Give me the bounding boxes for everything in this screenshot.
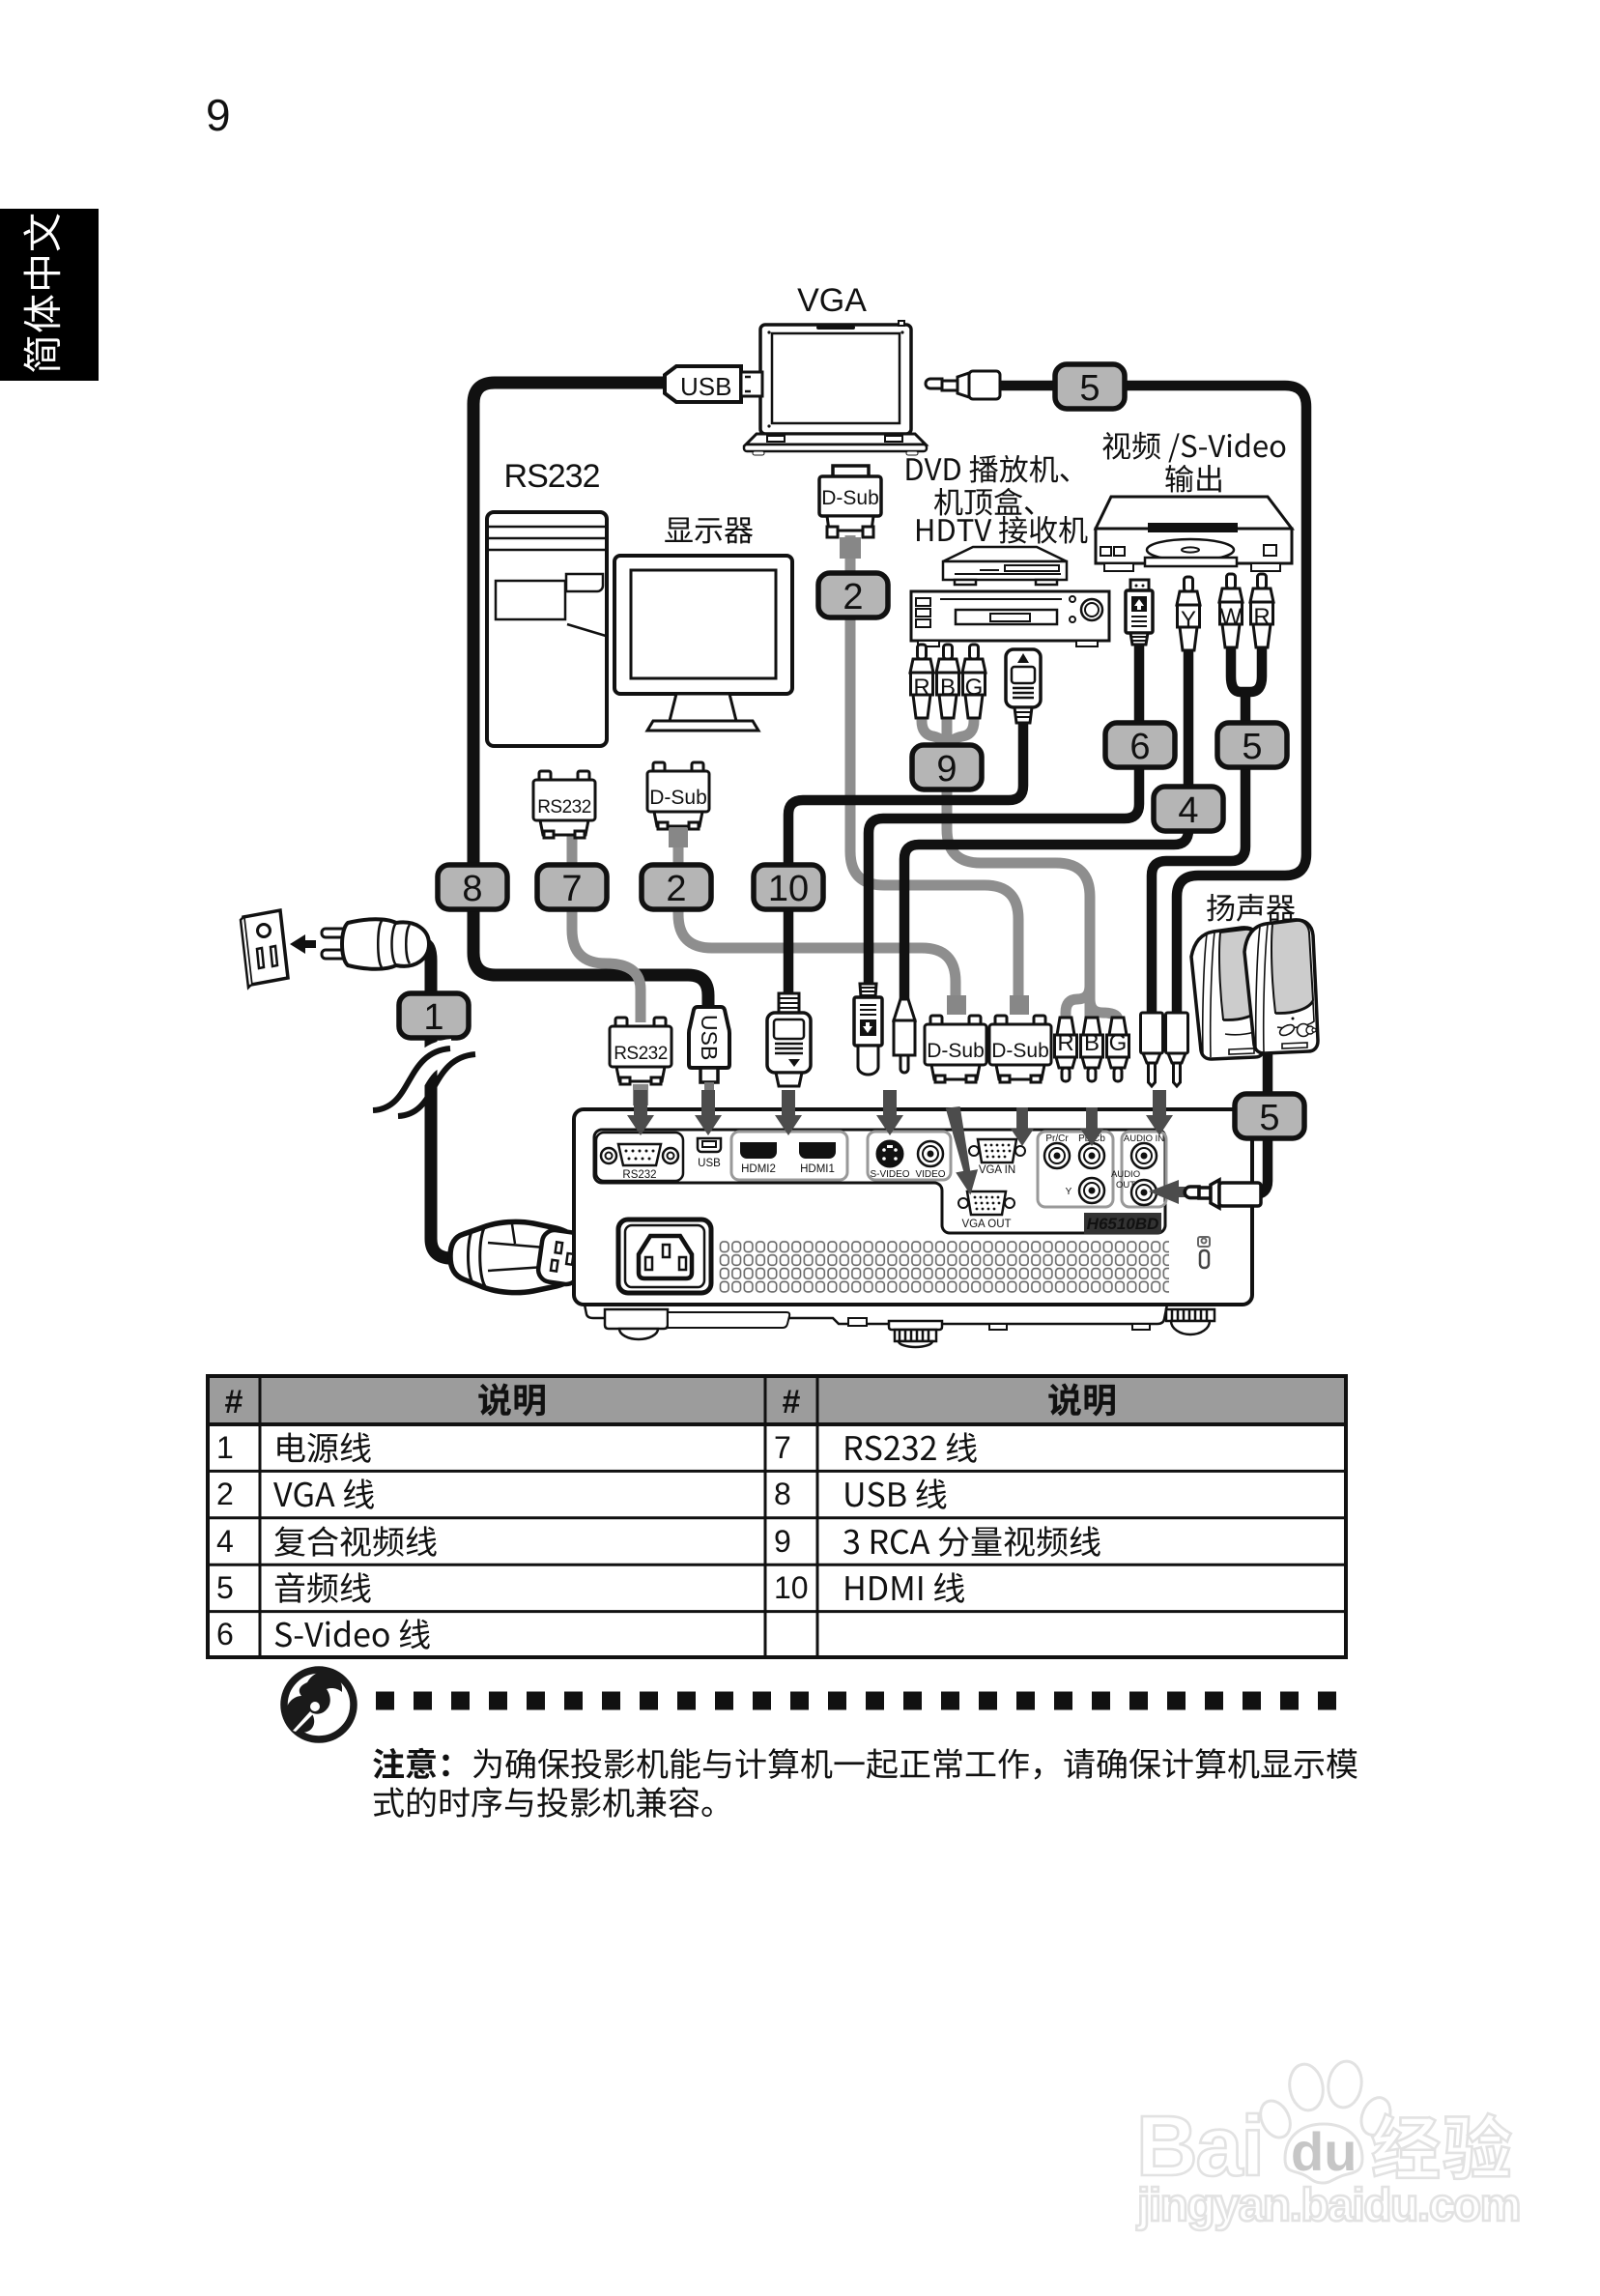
wire component-cable [922, 715, 1090, 980]
label monitor [665, 517, 753, 543]
label tab [23, 214, 60, 372]
speakers [1191, 920, 1318, 1059]
arrow into audio-out [1149, 1180, 1204, 1204]
label th2 [1048, 1384, 1115, 1417]
svg-text:Y: Y [1066, 1187, 1072, 1197]
svg-text:4: 4 [1178, 790, 1198, 831]
callout 8 usb [438, 865, 507, 909]
projector port panel [594, 1130, 1165, 1233]
iec plug [450, 1221, 585, 1292]
label th1 [478, 1384, 545, 1417]
svg-text:R: R [913, 674, 929, 701]
callout 5 speaker [1235, 1094, 1304, 1138]
svg-text:VGA: VGA [797, 282, 867, 319]
connector usb-bottom [689, 1007, 729, 1100]
svg-text:Y: Y [1181, 607, 1196, 633]
svg-text:8: 8 [774, 1477, 791, 1511]
svg-text:1: 1 [423, 997, 443, 1038]
svg-text:D-Sub: D-Sub [649, 787, 707, 809]
wire vga-cable-monitor [678, 829, 956, 1005]
callout 4 composite [1154, 787, 1223, 831]
svg-text:R: R [1057, 1030, 1073, 1056]
power plug [322, 919, 429, 969]
callout 10 hdmi [754, 865, 823, 909]
svg-text:W: W [1220, 604, 1243, 630]
svg-text:#: # [225, 1384, 243, 1421]
wire usb-cable [473, 383, 708, 1024]
label r4a [275, 1572, 371, 1603]
callout 5 laptop-audio [1055, 364, 1125, 409]
port hdmi group [731, 1132, 847, 1180]
svg-text:jingyan.baidu.com: jingyan.baidu.com [1136, 2180, 1520, 2231]
svg-text:D-Sub: D-Sub [991, 1040, 1049, 1062]
label r1b [845, 1432, 976, 1462]
label r3a [274, 1526, 437, 1556]
connector audio-plug-out [1185, 1180, 1261, 1208]
connector rs232-bottom [610, 1018, 671, 1084]
port vga-in [969, 1139, 1025, 1162]
connector usb-plug-laptop [665, 366, 762, 402]
wire audio-cable-laptop [995, 386, 1306, 1017]
arrow into vga-out port [946, 1105, 980, 1195]
svg-text:H6510BD: H6510BD [1087, 1215, 1159, 1233]
connector rs232-top [533, 771, 595, 838]
label dvd1 [906, 455, 1069, 483]
label r3b [843, 1526, 1100, 1556]
power inlet [618, 1220, 711, 1293]
svg-text:RS232: RS232 [614, 1044, 668, 1064]
connector dsub2-bottom [1010, 995, 1029, 1015]
connector rca-B-bottom [1081, 1018, 1103, 1081]
label r2b [845, 1478, 946, 1508]
connector rca-R-top [910, 645, 933, 718]
label dvd3 [917, 516, 1087, 544]
svg-text:HDMI1: HDMI1 [800, 1163, 835, 1175]
connector audio-jack-left [1141, 1013, 1163, 1086]
connector audio-plug-laptop [926, 371, 1000, 399]
svg-text:D-Sub: D-Sub [927, 1040, 985, 1062]
connector rca-R2-top [1250, 574, 1273, 647]
callout 5 wr-audio [1217, 723, 1287, 767]
projector body [574, 1109, 1252, 1347]
svg-text:D-Sub: D-Sub [821, 487, 879, 509]
svg-text:6: 6 [216, 1617, 234, 1651]
svg-text:AUDIO: AUDIO [1111, 1169, 1140, 1180]
arrow into rs232 port [627, 1090, 654, 1135]
arrow into inlet [588, 1248, 635, 1276]
label note2 [374, 1787, 712, 1818]
arrow to outlet [290, 934, 316, 954]
cable break mark [373, 1048, 475, 1116]
dvd player [1096, 497, 1292, 571]
svg-text:1: 1 [216, 1430, 234, 1465]
label r4b [845, 1572, 964, 1602]
svg-text:RS232: RS232 [537, 797, 591, 818]
arrow into usb port [695, 1090, 722, 1135]
connector dsub-laptop [819, 466, 881, 537]
svg-text:4: 4 [216, 1524, 234, 1559]
port component group [1038, 1132, 1113, 1207]
label noteB [373, 1748, 449, 1779]
port rs232 [596, 1133, 683, 1181]
wire power-cord [425, 944, 483, 1259]
connector audio-jack-right [1166, 1013, 1188, 1086]
svg-text:S-VIDEO: S-VIDEO [870, 1169, 909, 1180]
arrow into vga-in port [1011, 1107, 1034, 1146]
label wm [1372, 2113, 1511, 2179]
svg-text:RS232: RS232 [504, 458, 600, 495]
dashed separator [376, 1692, 1348, 1710]
svg-text:5: 5 [216, 1570, 234, 1605]
computer tower [487, 512, 607, 746]
connector-stub grey square laptop vga [840, 537, 861, 559]
svg-text:B: B [1084, 1030, 1100, 1056]
connector video-rca-bottom [894, 999, 915, 1073]
watermark baidu jingyan [1136, 2059, 1520, 2231]
language tab [0, 209, 99, 381]
label r2a [273, 1478, 374, 1508]
wire wr-audio-cable [1231, 634, 1262, 692]
svg-text:VGA OUT: VGA OUT [961, 1219, 1011, 1230]
note icon [284, 1670, 354, 1739]
wire hdmi-cable [788, 720, 1023, 997]
svg-text:2: 2 [843, 577, 863, 617]
connector svideo-bottom [854, 984, 882, 1075]
port usb [698, 1138, 721, 1152]
label r1a [277, 1432, 370, 1462]
connector hdmi-bottom [767, 993, 811, 1086]
connector rca-Y-top [1177, 577, 1200, 650]
svg-text:8: 8 [462, 869, 482, 909]
label svideo1 [1102, 432, 1285, 463]
svg-text:2: 2 [216, 1477, 234, 1511]
av receiver [911, 591, 1109, 646]
connector svideo-plug-top [1126, 580, 1153, 645]
svg-text:9: 9 [936, 749, 957, 789]
svg-text:7: 7 [561, 869, 582, 909]
wire component-split [1066, 980, 1090, 1020]
wire svideo-cable [869, 642, 1139, 984]
connector rca-W-top [1219, 574, 1243, 647]
laptop computer [744, 321, 927, 455]
svg-text:10: 10 [774, 1570, 809, 1605]
callout 6 svideo [1105, 723, 1175, 767]
monitor [614, 556, 792, 731]
svg-text:#: # [783, 1384, 801, 1421]
svg-text:HDMI2: HDMI2 [741, 1163, 776, 1175]
label svideo2 [1165, 465, 1220, 493]
svg-text:6: 6 [1129, 727, 1150, 767]
connector dsub-monitor [647, 762, 709, 829]
connector hdmi-plug-top [1006, 649, 1041, 723]
wire speaker-cable [1248, 1053, 1268, 1194]
label r5a [275, 1619, 430, 1649]
set-top box [943, 547, 1067, 585]
label note1 [473, 1748, 1357, 1779]
port audio group [1122, 1132, 1166, 1207]
projector model label [1084, 1213, 1161, 1234]
svg-text:10: 10 [768, 869, 809, 909]
svg-text:9: 9 [774, 1524, 791, 1559]
svg-text:5: 5 [1242, 727, 1262, 767]
port svideo/video group [868, 1132, 951, 1180]
wire rs232-cable [572, 833, 641, 1022]
arrow into component port [1080, 1107, 1103, 1146]
connector rca-B-top [936, 645, 959, 718]
connector rca-G-top [962, 645, 986, 718]
table [208, 1376, 1346, 1657]
svg-text:USB: USB [698, 1158, 721, 1169]
svg-text:9: 9 [206, 90, 231, 140]
arrow into audio-in port [1146, 1090, 1173, 1135]
wall outlet [241, 910, 288, 988]
wire composite-cable [904, 638, 1188, 999]
svg-text:7: 7 [774, 1430, 791, 1465]
callout 7 rs232 [537, 865, 607, 909]
svg-text:VGA IN: VGA IN [979, 1164, 1015, 1176]
svg-text:VIDEO: VIDEO [915, 1169, 945, 1180]
svg-text:du: du [1291, 2121, 1357, 2182]
kensington lock [1198, 1237, 1210, 1268]
label dvd2 [934, 488, 1034, 516]
svg-text:RS232: RS232 [622, 1169, 656, 1181]
callout 2 monitor-vga [642, 865, 711, 909]
connector rca-R-bottom [1055, 1018, 1077, 1081]
arrow into svideo port [876, 1090, 903, 1135]
callout 9 component [912, 745, 982, 789]
callout 1 power [399, 993, 469, 1038]
label spk [1207, 894, 1295, 922]
callout 2 laptop-vga [818, 573, 888, 617]
wire vga-cable-laptop [850, 535, 1018, 1005]
svg-text:5: 5 [1259, 1098, 1279, 1138]
vent grid [719, 1240, 1169, 1294]
connector rca-G-bottom [1107, 1018, 1129, 1081]
svg-text:G: G [965, 674, 984, 701]
connector dsub1-bottom [947, 995, 966, 1015]
svg-text:USB: USB [697, 1015, 722, 1060]
svg-text:5: 5 [1079, 368, 1100, 409]
svg-text:2: 2 [666, 869, 686, 909]
svg-text:R: R [1253, 604, 1270, 630]
svg-text:B: B [940, 674, 956, 701]
port vga-out [958, 1191, 1014, 1215]
svg-text:USB: USB [680, 372, 731, 401]
svg-text:G: G [1109, 1030, 1128, 1056]
arrow into hdmi port [775, 1090, 802, 1135]
